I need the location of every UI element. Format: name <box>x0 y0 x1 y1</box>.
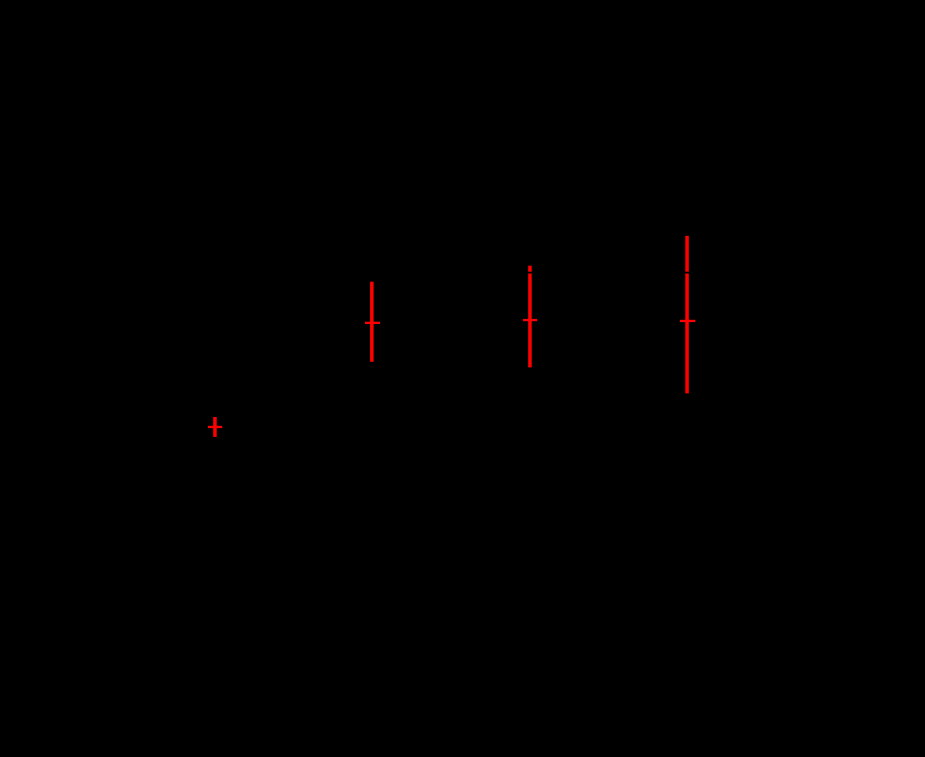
error bar 3 marker cap <box>523 319 537 321</box>
error bar 2 marker cap <box>365 322 380 324</box>
error bar 1 marker cap <box>208 426 222 428</box>
error bar 2 vertical line <box>370 282 374 362</box>
error bar 1 vertical line <box>213 417 217 437</box>
error bar 3 vertical line <box>528 266 532 368</box>
black horizontal line crossing bars 3 and 4 <box>0 272 925 274</box>
error bar 4 vertical line <box>685 236 689 394</box>
error bar 4 marker cap <box>680 320 695 322</box>
